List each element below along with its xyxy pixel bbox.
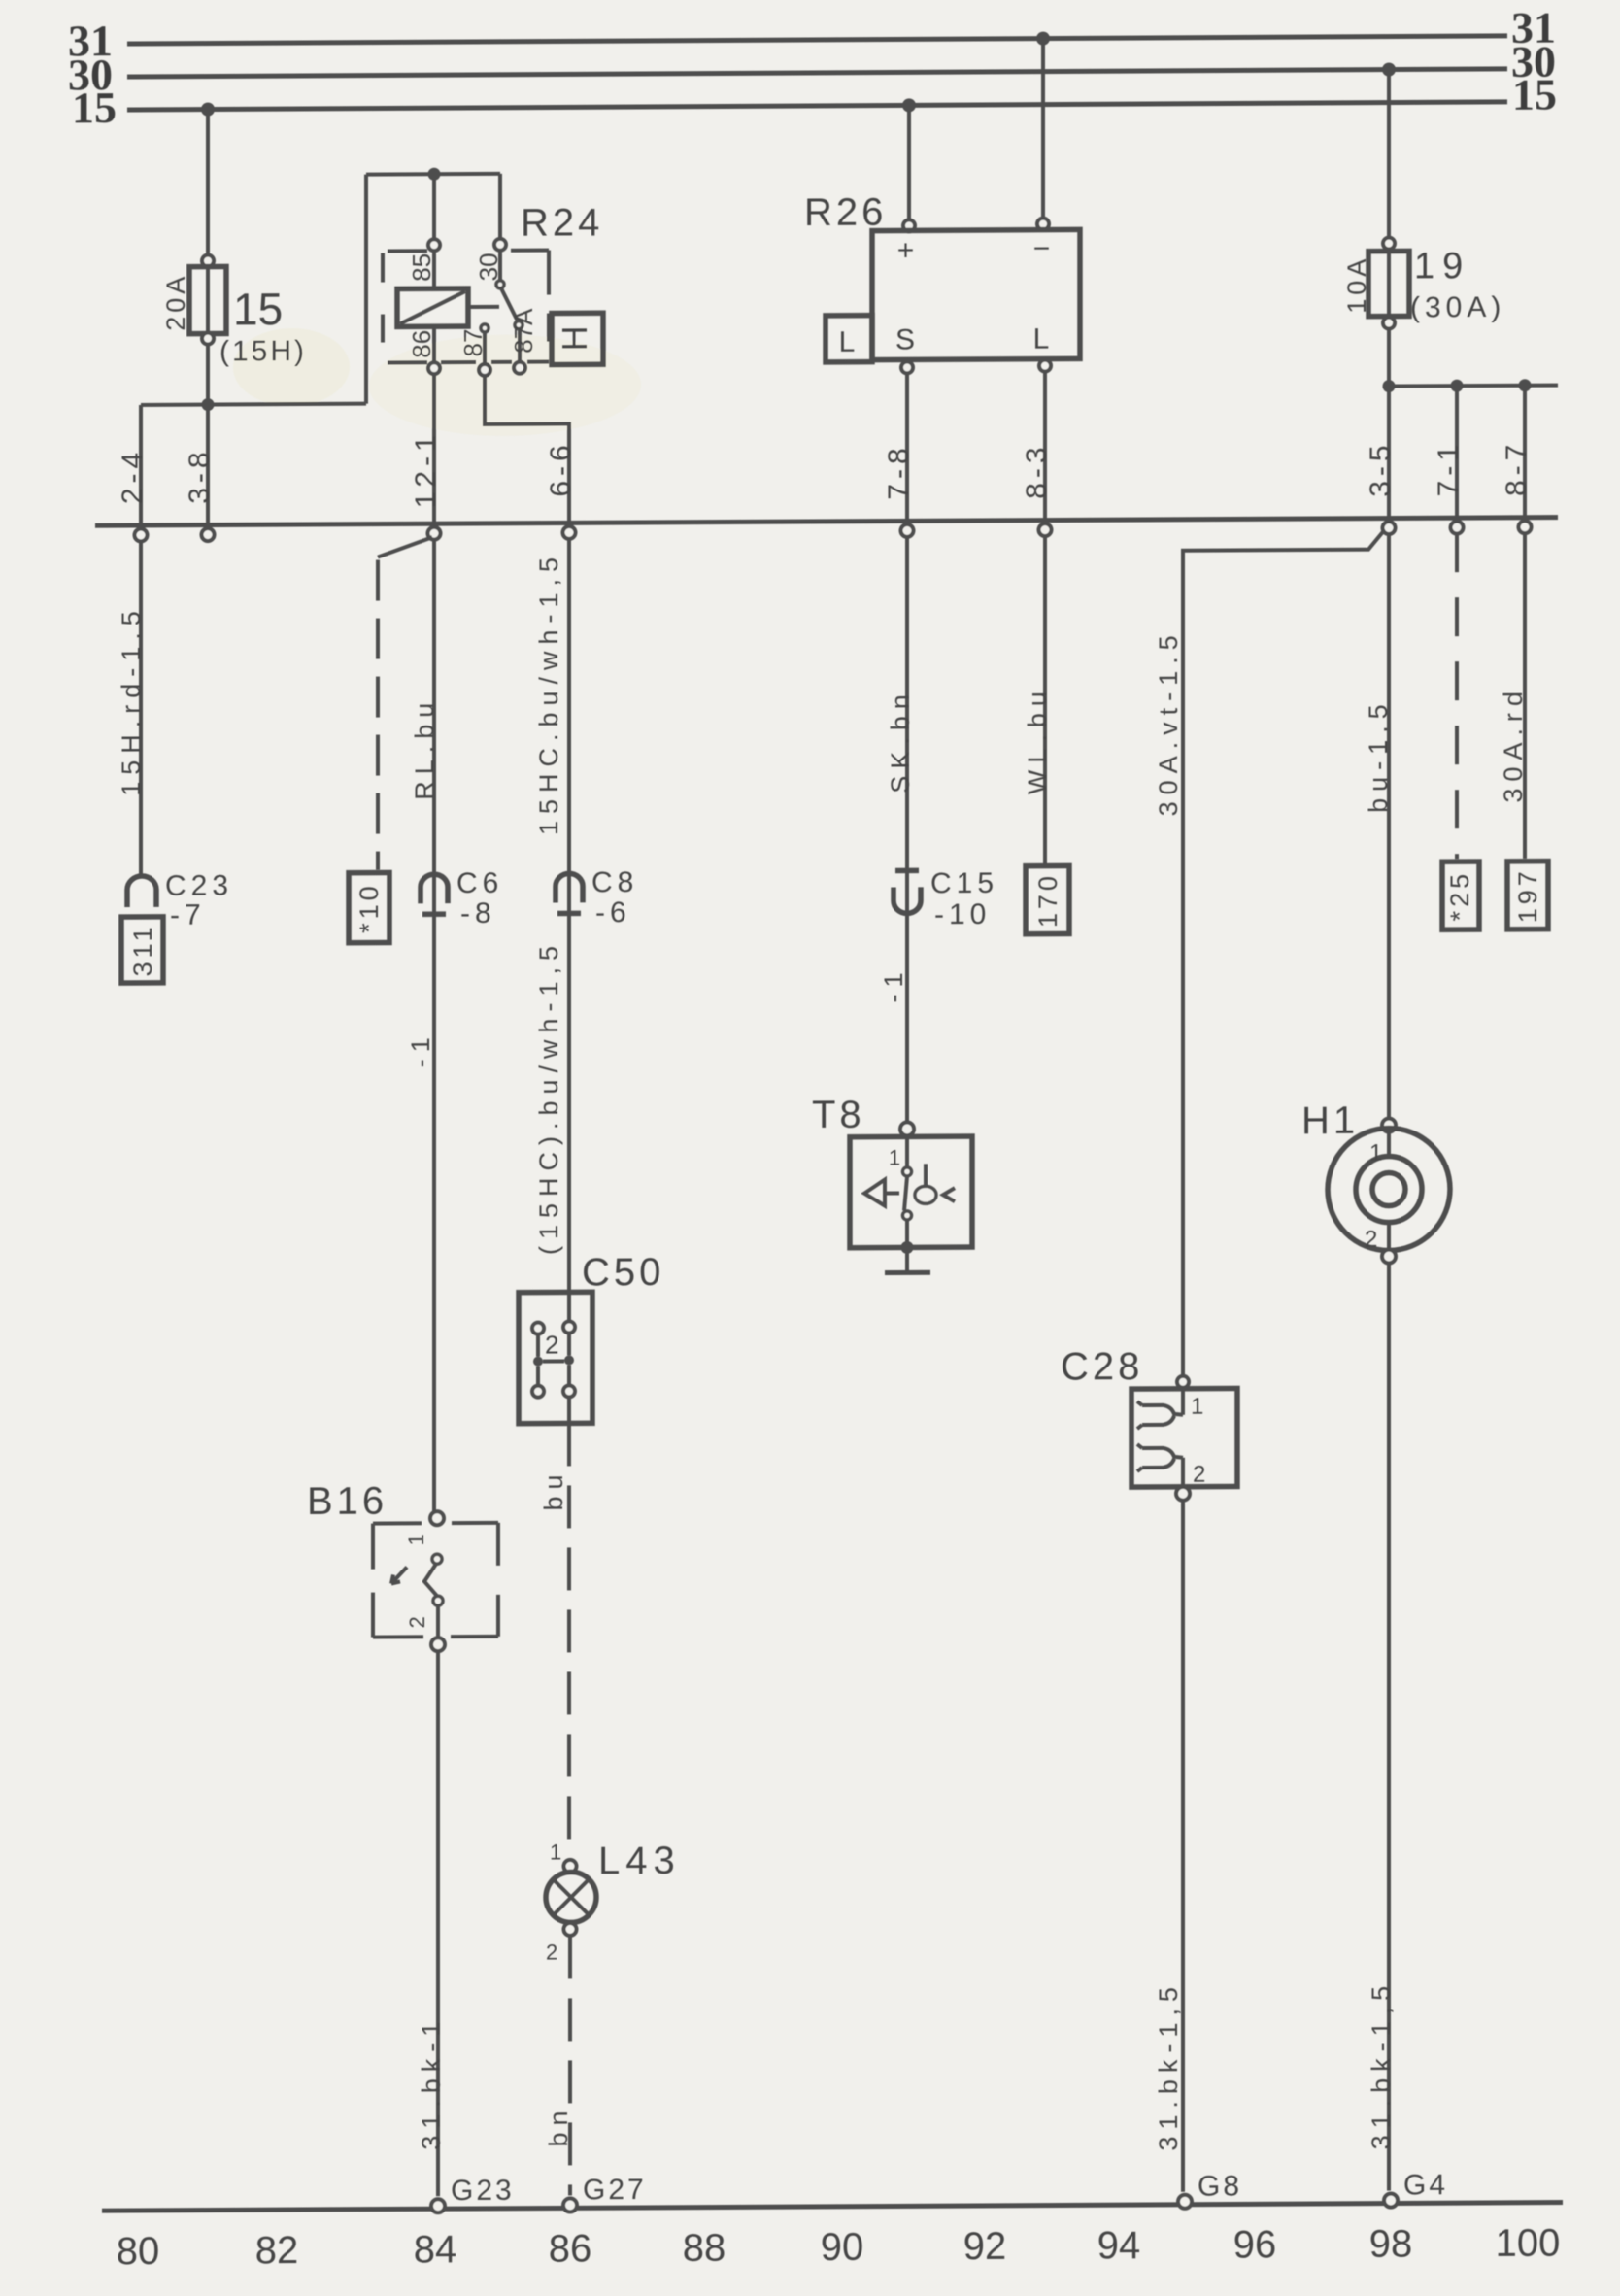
svg-text:G8: G8: [1198, 2170, 1242, 2202]
wire 31.bk-1 to G23: [436, 1651, 440, 2196]
wire 31.bk-1,5 to G4: [1387, 1264, 1391, 2191]
connector C28 label: [1061, 1345, 1143, 1388]
svg-text:31.bk-1,5: 31.bk-1,5: [1154, 1980, 1183, 2151]
wire label (15HC).bu/wh-1,5: [534, 939, 563, 1255]
R26 terminal S circle: [901, 361, 913, 373]
connector C6 fork: [421, 874, 448, 914]
paper yellow stain: [233, 326, 641, 437]
wire label WL.bu: [1023, 685, 1052, 794]
fuse F15 name 15: [233, 284, 283, 334]
R26 minus sign: [1033, 233, 1054, 265]
svg-text:197: 197: [1513, 867, 1542, 923]
scale number 88: [683, 2226, 726, 2269]
wire label 31.bk-1,5 (G4): [1367, 1979, 1396, 2150]
wire bus31 to R26 minus: [1037, 39, 1049, 230]
fuse F19 name 19: [1414, 246, 1470, 287]
svg-text:-1: -1: [879, 965, 908, 1002]
wire 31.bk-1,5 to G8: [1181, 1501, 1185, 2192]
junction dot on bracket: [428, 168, 441, 181]
bus 31 right label: [1511, 3, 1556, 52]
wire bu-1.5 (3-5 down): [1387, 534, 1391, 1119]
svg-text:H: H: [555, 325, 594, 351]
svg-text:170: 170: [1033, 872, 1063, 928]
svg-text:30A.vt-1.5: 30A.vt-1.5: [1154, 628, 1183, 816]
ground terminal G4: [1384, 2169, 1448, 2207]
relay R24 label: [521, 201, 603, 244]
connector C23 label: [165, 869, 233, 930]
scale number 92: [963, 2225, 1006, 2268]
svg-text:2-4: 2-4: [117, 448, 149, 505]
fuse F19 name (30A): [1410, 291, 1505, 324]
junction dot bus31 / R26 minus column: [1036, 32, 1050, 46]
wire label bu: [539, 1468, 568, 1510]
trunk terminal circle 6-6: [563, 526, 576, 539]
scale number 96: [1233, 2223, 1276, 2266]
bus 30 left label: [68, 50, 113, 99]
svg-text:1: 1: [1191, 1394, 1203, 1420]
dashed wire 7-1 to *25: [1455, 533, 1459, 859]
scale number 100: [1496, 2222, 1561, 2265]
wire bn dashed to G27: [568, 1936, 572, 2195]
svg-text:86: 86: [549, 2227, 591, 2270]
svg-text:(15HC).bu/wh-1,5: (15HC).bu/wh-1,5: [534, 939, 563, 1255]
svg-text:15H.rd-1.5: 15H.rd-1.5: [117, 604, 146, 796]
relay R24 terminal 87 circle: [479, 364, 490, 376]
relay R24 terminal 86 circle: [428, 362, 440, 374]
connector C28 pin 1 fork: [1137, 1389, 1203, 1429]
relay R26 label: [804, 191, 887, 234]
R26 small L box: [826, 316, 872, 362]
scale number 94: [1097, 2224, 1140, 2267]
wire label -1 (RL column): [406, 1030, 435, 1067]
lamp L43: [546, 1872, 596, 1922]
trunk terminal circle 2-4: [135, 528, 148, 541]
horn H1 top terminal: [1382, 1119, 1396, 1132]
stub label 3-5: [1365, 440, 1397, 497]
wire label 30A.rd: [1499, 685, 1528, 803]
wire up to relay bracket: [364, 175, 368, 404]
bus 15 left label: [72, 83, 117, 132]
stub label 2-4: [117, 448, 149, 505]
fuse F15 20A: [189, 254, 226, 344]
svg-text:82: 82: [255, 2229, 298, 2272]
svg-text:94: 94: [1097, 2224, 1140, 2267]
svg-text:87: 87: [458, 328, 488, 356]
lamp L43 pin1: [550, 1840, 577, 1873]
wire RL.bu (12-1 down): [432, 539, 436, 1511]
stub label 3-8: [184, 447, 216, 504]
connector C50 label: [582, 1251, 664, 1294]
svg-text:311: 311: [128, 923, 157, 976]
svg-text:31.bk-1,5: 31.bk-1,5: [1367, 1979, 1396, 2150]
relay R24 dashed outline: [383, 251, 549, 363]
wire fuse 19 down: [1387, 329, 1391, 519]
horn H1 bottom terminal: [1382, 1250, 1396, 1264]
wire label 15H.rd-1.5: [117, 604, 146, 796]
terminal box 170: [1026, 865, 1069, 933]
svg-text:80: 80: [117, 2230, 159, 2273]
svg-text:31.bk-1: 31.bk-1: [417, 2015, 446, 2150]
svg-text:R26: R26: [804, 191, 887, 234]
svg-text:bu: bu: [539, 1468, 568, 1510]
svg-text:100: 100: [1496, 2222, 1561, 2265]
svg-text:90: 90: [821, 2226, 863, 2269]
ground terminal G23: [431, 2175, 515, 2212]
svg-text:SK.bn: SK.bn: [886, 688, 915, 793]
connector C28 pin 2 fork: [1137, 1444, 1205, 1488]
relay R24 contact lever: [496, 251, 523, 362]
svg-text:(30A): (30A): [1410, 291, 1505, 324]
relay R24 contact 87: [481, 324, 489, 364]
connector C15 fork: [894, 870, 921, 913]
svg-text:B16: B16: [307, 1480, 388, 1523]
trunk terminal circle 7-8: [901, 524, 914, 537]
R26 terminal L circle: [1039, 360, 1051, 372]
svg-text:85: 85: [407, 253, 436, 282]
junction dot fuse15 output node: [202, 398, 215, 411]
terminal box *10: [349, 872, 389, 942]
scale number 86: [549, 2227, 591, 2270]
wire pin 87 to trunk (6-6): [485, 375, 569, 523]
svg-text:92: 92: [963, 2225, 1006, 2268]
svg-text:30A.rd: 30A.rd: [1499, 685, 1528, 803]
trunk terminal circle 8-7: [1519, 521, 1532, 533]
horn H1: [1328, 1128, 1450, 1253]
scale number 90: [821, 2226, 863, 2269]
horn switch T8 ground: [885, 1241, 930, 1273]
R26 S terminal label: [895, 323, 915, 355]
wire bracket to pin 30: [494, 174, 506, 251]
connector C15 label: [930, 867, 998, 930]
svg-text:7-1: 7-1: [1433, 440, 1465, 497]
trunk line: [95, 518, 1558, 526]
bus 31 left label: [68, 16, 113, 65]
svg-text:-6: -6: [595, 896, 631, 929]
connector C6 label: [456, 867, 503, 929]
relay R24 pin 30 label: [474, 253, 503, 281]
wire label 30A.vt-1.5: [1154, 628, 1183, 816]
trunk terminal circle 8-3: [1039, 523, 1052, 536]
svg-text:15: 15: [72, 83, 117, 132]
svg-text:2: 2: [405, 1616, 429, 1628]
R26 plus sign: [897, 234, 918, 266]
wire bus15 to R26 plus: [903, 105, 915, 231]
relay R24 coil-contact link: [468, 305, 499, 309]
connector C28 box: [1131, 1388, 1237, 1487]
svg-text:H1: H1: [1301, 1099, 1359, 1142]
relay R26 box: [872, 229, 1080, 359]
wire 30A.rd (8-7 down): [1523, 533, 1527, 859]
relay R24 pin 87 label: [458, 328, 488, 356]
svg-text:bn: bn: [544, 2104, 573, 2146]
svg-text:C6: C6: [456, 867, 503, 899]
svg-text:96: 96: [1233, 2223, 1276, 2266]
svg-text:R24: R24: [521, 201, 603, 244]
svg-text:-8: -8: [460, 897, 496, 929]
trunk terminal circle 12-1: [428, 527, 441, 540]
connector C8 label: [591, 866, 638, 929]
stub label 12-1: [410, 430, 442, 508]
bus 15: [127, 102, 1507, 110]
bus 30: [127, 69, 1507, 77]
svg-text:30: 30: [474, 253, 503, 281]
switch B16 top terminal: [430, 1511, 444, 1525]
terminal box *25: [1442, 861, 1479, 929]
stub label 6-6: [545, 440, 577, 497]
wire stub 2-4 down to trunk: [139, 405, 143, 525]
svg-text:86: 86: [407, 330, 436, 358]
trunk terminal circle 7-1: [1451, 522, 1464, 534]
svg-text:8-7: 8-7: [1501, 440, 1533, 497]
wire bus30 to fuse 19: [1387, 70, 1391, 240]
wire SK.bn (7-8 down): [905, 536, 909, 1122]
wire WL.bu (8-3 down): [1043, 536, 1047, 866]
wire label -1 (SK column): [879, 965, 908, 1002]
relay R24 pin 87A label: [509, 308, 538, 354]
svg-text:L43: L43: [598, 1840, 681, 1882]
horn switch T8 top terminal: [900, 1122, 914, 1135]
trunk terminal circle 3-5: [1383, 522, 1396, 534]
wire label 31.bk-1: [417, 2015, 446, 2150]
svg-text:G27: G27: [583, 2174, 647, 2206]
scale number 80: [117, 2230, 159, 2273]
stub label 7-1: [1433, 440, 1465, 497]
svg-text:S: S: [895, 323, 915, 355]
dashed branch to *10: [378, 537, 432, 869]
wire pin 86 to trunk: [432, 374, 436, 523]
svg-text:98: 98: [1369, 2222, 1412, 2265]
svg-text:+: +: [897, 234, 918, 266]
ground terminal G27: [563, 2174, 647, 2212]
wire stub 8-7 to trunk: [1523, 386, 1527, 518]
terminal box 197: [1507, 861, 1548, 929]
svg-text:19: 19: [1414, 246, 1470, 287]
wire bu dashed below C50: [567, 1423, 571, 1856]
bus 31: [127, 36, 1507, 44]
svg-text:20A: 20A: [161, 273, 190, 331]
svg-text:7-8: 7-8: [883, 443, 915, 500]
wire 15H.rd-1.5: [139, 541, 143, 875]
horn H1 label: [1301, 1099, 1359, 1142]
switch B16 dashed box: [373, 1523, 498, 1638]
wire label RL.bu: [410, 696, 439, 800]
svg-text:84: 84: [414, 2228, 456, 2271]
function box H: [552, 313, 603, 364]
connector C8 fork: [556, 873, 583, 913]
svg-text:3-8: 3-8: [184, 447, 216, 504]
wire S to trunk (7-8): [905, 373, 909, 521]
junction dot 3-5 node: [1383, 380, 1396, 392]
wire stub 7-1 to trunk: [1455, 386, 1459, 518]
svg-text:G4: G4: [1403, 2169, 1448, 2201]
connector C50 box: [519, 1292, 592, 1423]
junction dot bus15 / fuse 15 column: [201, 103, 215, 117]
wire label 31.bk-1,5 (G8): [1154, 1980, 1183, 2151]
svg-text:1: 1: [1369, 1140, 1382, 1166]
svg-text:−: −: [1033, 233, 1054, 265]
svg-text:15HC.bu/wh-1,5: 15HC.bu/wh-1,5: [534, 551, 563, 835]
svg-text:-7: -7: [170, 899, 206, 931]
connector C23 fork: [127, 876, 156, 907]
wire fuse 15 down to node: [206, 345, 210, 525]
wire label bn: [544, 2104, 573, 2146]
svg-text:88: 88: [683, 2226, 726, 2269]
lamp L43 pin2: [546, 1923, 577, 1965]
connector C28 top terminal: [1177, 1376, 1189, 1388]
switch B16 contacts: [391, 1534, 443, 1638]
horn switch T8 label: [812, 1094, 865, 1136]
bus 15 right label: [1512, 70, 1557, 119]
svg-text:L: L: [1033, 323, 1050, 355]
svg-text:bu-1.5: bu-1.5: [1364, 697, 1393, 813]
wire fuse output horizontal: [141, 404, 366, 405]
svg-text:G23: G23: [451, 2175, 515, 2207]
stub label 8-3: [1021, 442, 1053, 499]
svg-text:87A: 87A: [509, 308, 538, 354]
svg-text:C15: C15: [930, 867, 998, 899]
terminal box 311: [121, 917, 163, 983]
fuse F15 name (15H): [219, 335, 307, 368]
junction dot 7-1 node: [1451, 380, 1464, 392]
svg-text:WL.bu: WL.bu: [1023, 685, 1052, 794]
stub label 8-7: [1501, 440, 1533, 497]
R26 L terminal label: [1033, 323, 1050, 355]
horn switch T8 contacts: [864, 1135, 955, 1248]
svg-text:L: L: [839, 326, 856, 358]
relay R24 feed bracket: [366, 172, 500, 177]
scale number 84: [414, 2228, 456, 2271]
svg-text:8-3: 8-3: [1021, 442, 1053, 499]
wire 30A.vt-1.5 branch from 3-5: [1183, 532, 1383, 1375]
svg-text:15: 15: [233, 284, 283, 334]
junction dot 8-7 node: [1519, 379, 1532, 391]
svg-text:*10: *10: [354, 882, 384, 933]
svg-text:10A: 10A: [1342, 255, 1371, 314]
wire label 15HC.bu/wh-1,5: [534, 551, 563, 835]
stub label 7-8: [883, 443, 915, 500]
svg-text:12-1: 12-1: [410, 430, 442, 508]
wire L to trunk (8-3): [1043, 372, 1047, 521]
svg-text:1: 1: [404, 1534, 428, 1545]
wire bracket to pin 85: [428, 174, 440, 251]
svg-text:15: 15: [1512, 70, 1557, 119]
junction dot bus30 / fuse 19 column: [1382, 63, 1396, 77]
connector C50 pins: [532, 1321, 575, 1423]
connector C28 bottom terminal: [1176, 1487, 1190, 1501]
relay R24 pin 86 label: [407, 330, 436, 358]
scale number 98: [1369, 2222, 1412, 2265]
svg-text:C50: C50: [582, 1251, 664, 1294]
junction node line right: [1389, 386, 1558, 387]
relay R24 terminal 87A circle: [514, 362, 525, 374]
wire label SK.bn: [886, 688, 915, 793]
svg-text:-10: -10: [934, 898, 991, 930]
fuse F15 rating label 20A: [161, 273, 190, 331]
svg-text:C23: C23: [165, 869, 233, 901]
svg-text:6-6: 6-6: [545, 440, 577, 497]
horn switch T8 box: [850, 1136, 972, 1248]
bus 30 right label: [1511, 37, 1556, 86]
wire 15HC.bu/wh-1,5 (6-6 down): [567, 538, 571, 1321]
relay R24 coil: [397, 251, 468, 362]
fuse F19 10A: [1368, 237, 1409, 328]
svg-text:2: 2: [1193, 1462, 1205, 1488]
fuse F19 rating label 10A: [1342, 255, 1371, 314]
svg-text:1: 1: [889, 1145, 900, 1169]
relay R24 pin 85 label: [407, 253, 436, 282]
svg-text:1: 1: [550, 1840, 561, 1864]
svg-text:3-5: 3-5: [1365, 440, 1397, 497]
switch B16 bottom terminal: [431, 1638, 445, 1651]
ground terminal G8: [1178, 2170, 1242, 2208]
svg-text:-1: -1: [406, 1030, 435, 1067]
svg-text:(15H): (15H): [219, 335, 307, 368]
ground rail: [102, 2203, 1563, 2212]
scale number 82: [255, 2229, 298, 2272]
junction dot bus15 / R26 plus column: [902, 98, 916, 112]
svg-text:*25: *25: [1445, 870, 1474, 922]
svg-text:C28: C28: [1061, 1345, 1143, 1388]
wire bus15 to fuse 15: [206, 110, 210, 258]
switch B16 label: [307, 1480, 388, 1523]
svg-text:T8: T8: [812, 1094, 865, 1136]
wire label bu-1.5: [1364, 697, 1393, 813]
svg-text:2: 2: [545, 1330, 558, 1359]
svg-text:RL.bu: RL.bu: [410, 696, 439, 800]
svg-text:2: 2: [546, 1940, 557, 1964]
svg-text:2: 2: [1365, 1227, 1377, 1253]
trunk terminal circle 3-8: [202, 528, 215, 541]
lamp L43 label: [598, 1840, 681, 1882]
svg-text:C8: C8: [591, 866, 638, 898]
